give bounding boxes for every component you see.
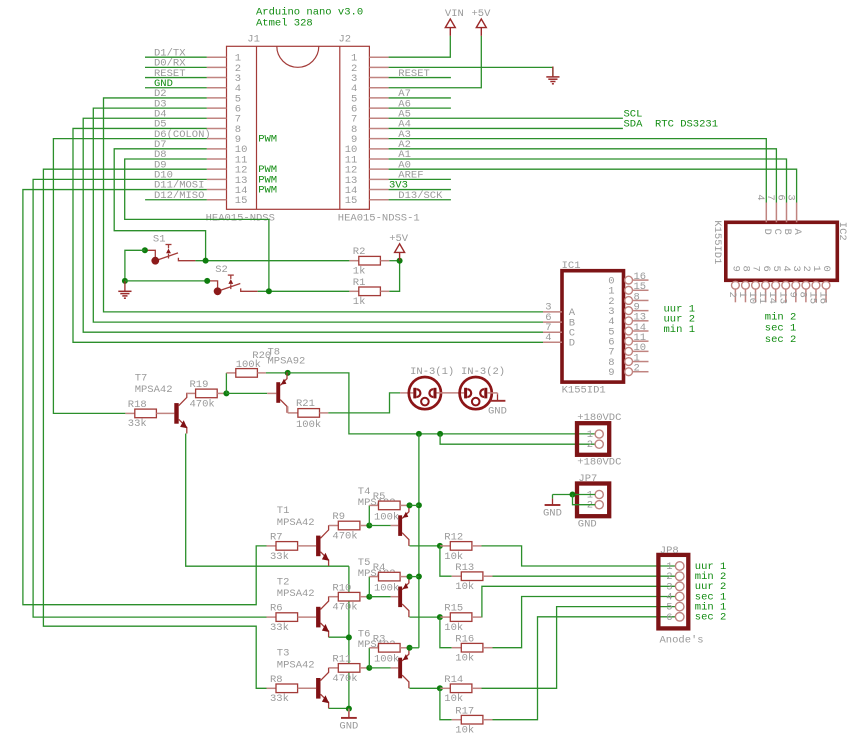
transistor T1 (NPN)	[316, 525, 329, 566]
pin right of R16	[483, 647, 493, 649]
pin 1 of J1	[207, 56, 227, 58]
svg-text:100k: 100k	[374, 654, 399, 666]
pin 9 of IC2	[795, 289, 797, 302]
pin right of R20	[257, 372, 266, 374]
pin 6 (B) of IC1	[543, 321, 562, 323]
junction +5V node	[397, 258, 403, 264]
junction node S1-D7	[203, 258, 209, 264]
svg-text:R2: R2	[353, 246, 366, 258]
pin 11 of J1	[207, 158, 227, 160]
svg-text:GND: GND	[339, 720, 358, 732]
svg-text:IC1: IC1	[562, 260, 581, 272]
IC IC1 K155ID1 body	[562, 271, 624, 382]
pin 6 of J2	[369, 107, 388, 109]
pin 14 of IC1	[633, 330, 649, 332]
svg-text:VIN: VIN	[445, 8, 464, 20]
svg-text:100k: 100k	[374, 583, 399, 595]
ground earth symbol switches	[118, 281, 131, 298]
pin 7 of J1	[207, 117, 227, 119]
pin 3 of J1	[207, 77, 227, 79]
wire JP7 pin2 riser	[573, 495, 596, 505]
pin left of R18	[125, 412, 134, 414]
pin 3 (A) of IC1	[543, 311, 562, 313]
svg-text:R13: R13	[455, 562, 474, 574]
pin right of R4	[400, 576, 409, 578]
transistor T5 (PNP)	[398, 577, 409, 618]
pin right of R13	[483, 575, 493, 577]
inverter bubble output 1 of IC2	[812, 281, 820, 289]
wire R15 node down to R16	[440, 617, 452, 648]
wire net GND stub	[145, 87, 207, 89]
switch S2	[207, 264, 258, 295]
inverter bubble output 3 of IC1	[625, 307, 633, 315]
wire JP7 pin1 to GND	[553, 494, 596, 496]
connector JP7 body	[577, 484, 609, 517]
resistor R20	[236, 369, 258, 378]
svg-text:IN-3(2): IN-3(2)	[461, 366, 505, 378]
pin between lamps	[437, 392, 465, 394]
pin left of R8	[267, 687, 277, 689]
inverter bubble output 4 of IC1	[625, 317, 633, 325]
resistor R21	[298, 409, 320, 418]
svg-text:15: 15	[345, 195, 358, 207]
pin left of R13	[452, 575, 462, 577]
pin 5 pad of JP8	[675, 602, 684, 611]
junction T3 emitter / GND	[346, 706, 352, 712]
svg-text:PWM: PWM	[258, 185, 277, 197]
svg-text:100k: 100k	[296, 419, 321, 431]
wire net A6	[389, 107, 451, 109]
wire R10 to T5 base	[369, 596, 390, 598]
svg-text:JP8: JP8	[660, 545, 679, 557]
svg-text:33k: 33k	[270, 693, 289, 705]
svg-text:10k: 10k	[444, 693, 463, 705]
svg-text:6: 6	[666, 612, 672, 624]
inverter bubble output 5 of IC2	[772, 281, 780, 289]
wire R14 to JP8 pin5	[482, 607, 676, 689]
wire to +180VDC pin 2	[440, 434, 595, 444]
pin 12 of J2	[369, 168, 388, 170]
wire GND bus to symbol	[348, 709, 350, 712]
neon lamp IN-3(1)	[409, 366, 454, 409]
pin 6 of J1	[207, 107, 227, 109]
pin left of R7	[267, 545, 277, 547]
wire net A1 to IC2	[389, 159, 787, 203]
wire R12 node down to R13	[440, 546, 452, 576]
wire R16 to JP8 pin4	[493, 597, 676, 648]
junction R14 node	[437, 685, 443, 691]
pin left of R14	[440, 687, 450, 689]
wire net A3 to IC2	[389, 139, 767, 203]
svg-text:R10: R10	[332, 582, 351, 594]
pin 1 pad of +180VDC	[595, 430, 603, 438]
pin 4 pad of JP8	[675, 592, 684, 601]
pin 14 of IC2	[775, 289, 777, 302]
junction S1 common	[142, 247, 148, 253]
svg-text:GND: GND	[578, 519, 597, 531]
wire net D10 to R6	[33, 179, 266, 617]
pin right of R1	[380, 290, 389, 292]
resistor R19	[196, 389, 218, 398]
pin right of R19	[217, 392, 226, 394]
pin right of R15	[472, 616, 482, 618]
pin 6 (B) of IC2	[786, 203, 788, 223]
svg-text:R4: R4	[373, 562, 386, 574]
svg-text:+180VDC: +180VDC	[577, 412, 621, 424]
pin 12 of J1	[207, 168, 227, 170]
wire earth riser	[552, 67, 554, 76]
wire net RESET left	[145, 77, 207, 79]
pin left of R9	[329, 525, 338, 527]
svg-text:3: 3	[784, 194, 796, 200]
svg-text:R1: R1	[353, 277, 366, 289]
pin 2 pad of JP8	[675, 572, 684, 581]
wire net D3 to IC1 pin B	[93, 108, 543, 322]
pin left of R3	[369, 647, 378, 649]
svg-text:PWM: PWM	[258, 134, 277, 146]
ground GND symbol lamps	[488, 394, 507, 417]
wire +180V long vertical	[418, 434, 420, 648]
resistor R8	[276, 684, 298, 693]
svg-text:10k: 10k	[455, 725, 474, 736]
resistor R7	[276, 542, 298, 551]
pin right of R14	[472, 687, 482, 689]
wire T6 collector to R14	[410, 687, 440, 689]
pin base of T6	[391, 667, 399, 669]
pin right of R2	[380, 260, 389, 262]
svg-text:T7: T7	[135, 372, 148, 384]
inverter bubble output 1 of IC1	[625, 286, 633, 294]
svg-text:15: 15	[235, 195, 248, 207]
pin left of R12	[440, 545, 450, 547]
svg-text:S2: S2	[215, 264, 228, 276]
svg-text:SDA RTC DS3231: SDA RTC DS3231	[624, 119, 719, 131]
svg-text:R6: R6	[270, 603, 283, 615]
svg-text:MPSA92: MPSA92	[268, 356, 306, 368]
pin left of R15	[440, 616, 450, 618]
pin left of R4	[369, 576, 378, 578]
svg-text:470k: 470k	[332, 530, 357, 542]
junction R15 node	[437, 614, 443, 620]
svg-text:10k: 10k	[455, 581, 474, 593]
svg-text:33k: 33k	[128, 418, 147, 430]
junction T8 emitter node	[285, 370, 291, 376]
wire R15 to JP8 pin3	[482, 586, 676, 617]
inverter bubble output 2 of IC1	[625, 297, 633, 305]
svg-text:R21: R21	[296, 398, 315, 410]
pin left of R5	[369, 504, 378, 506]
resistor R11	[338, 664, 360, 673]
svg-text:2: 2	[634, 363, 640, 375]
wire net D9 to R8	[43, 169, 266, 688]
junction R9-R5 node	[366, 523, 372, 529]
resistor R13	[461, 572, 483, 581]
resistor R6	[276, 613, 298, 622]
svg-text:R11: R11	[332, 654, 351, 666]
pin 5 of J1	[207, 97, 227, 99]
svg-text:sec 2: sec 2	[695, 612, 727, 624]
svg-text:min 1: min 1	[664, 324, 696, 336]
svg-text:R8: R8	[270, 674, 283, 686]
junction +180V pin2 branch	[437, 431, 443, 437]
transistor T6 (PNP)	[398, 648, 409, 689]
svg-text:K155ID1: K155ID1	[562, 385, 606, 397]
pin 2 of IC2	[734, 289, 736, 302]
pin 1 pad of JP8	[675, 562, 684, 571]
svg-text:+5V: +5V	[389, 233, 409, 245]
junction JP7 pins	[570, 492, 576, 498]
pin 13 of J2	[369, 178, 388, 180]
svg-text:33k: 33k	[270, 622, 289, 634]
inverter bubble output 3 of IC2	[792, 281, 800, 289]
resistor R15	[450, 613, 472, 622]
junction +180V at long vertical	[416, 431, 422, 437]
pin 3 of J2	[369, 77, 388, 79]
pin left of R21	[288, 412, 298, 414]
resistor R9	[338, 521, 360, 530]
resistor R12	[450, 542, 472, 551]
svg-text:min 2: min 2	[765, 311, 797, 323]
wire R13 to JP8 pin2	[493, 575, 676, 577]
junction R5 right	[407, 502, 413, 508]
svg-text:R7: R7	[270, 532, 283, 544]
wire T5 collector to R15	[410, 616, 440, 618]
svg-text:A: A	[791, 229, 803, 236]
ground GND symbol bottom	[339, 712, 358, 733]
inverter bubble output 8 of IC2	[742, 281, 750, 289]
svg-text:16: 16	[817, 292, 829, 305]
junction R3 right	[407, 645, 413, 651]
inverter bubble output 8 of IC1	[625, 358, 633, 366]
svg-text:R16: R16	[455, 633, 474, 645]
svg-text:T2: T2	[277, 576, 290, 588]
svg-text:0: 0	[820, 266, 832, 272]
svg-text:+180VDC: +180VDC	[577, 457, 621, 469]
wire net 3V3	[389, 189, 451, 191]
wire net D1/TX	[145, 56, 207, 58]
svg-text:100k: 100k	[236, 359, 261, 371]
pin right of R21	[320, 412, 329, 414]
pin 14 of J1	[207, 189, 227, 191]
pin right of R7	[298, 545, 317, 547]
pin 1 of IC1	[633, 361, 649, 363]
inverter bubble output 2 of IC2	[802, 281, 810, 289]
wire net VIN	[389, 36, 451, 57]
pin left of R2	[349, 260, 358, 262]
junction R11-R3 node	[366, 665, 372, 671]
power symbol +5V switches	[389, 233, 409, 261]
transistor T8 (PNP)	[276, 372, 287, 413]
svg-text:T1: T1	[277, 505, 290, 517]
svg-text:470k: 470k	[332, 673, 357, 685]
pin 2 of J1	[207, 66, 227, 68]
pin 10 of J2	[369, 148, 388, 150]
inverter bubble output 0 of IC2	[822, 281, 830, 289]
pin 8 of J2	[369, 127, 388, 129]
svg-text:R12: R12	[444, 532, 463, 544]
pin 7 (C) of IC2	[775, 203, 777, 223]
pin base of T5	[391, 596, 399, 598]
wire +180V from T8 node	[288, 373, 595, 434]
pin right of R8	[298, 687, 317, 689]
transistor T7 (NPN)	[174, 393, 187, 434]
svg-text:MPSA42: MPSA42	[277, 588, 315, 600]
svg-text:R17: R17	[455, 705, 474, 717]
wire R19 node up to R20	[225, 373, 227, 394]
junction +180V stage2	[416, 574, 422, 580]
svg-text:MPSA42: MPSA42	[135, 384, 173, 396]
pin right of R6	[298, 616, 317, 618]
wire R20 to T8 emitter node	[266, 372, 288, 374]
pin left of R16	[452, 647, 462, 649]
wire net A5 SCL	[389, 117, 623, 119]
svg-text:HEA015-NDSS-1: HEA015-NDSS-1	[338, 212, 420, 224]
svg-text:J1: J1	[247, 34, 260, 46]
wire R4 left riser	[368, 577, 370, 597]
pin 2 pad of +180VDC	[595, 440, 603, 448]
junction R19-R20-T8 base	[223, 390, 229, 396]
resistor R3	[379, 644, 401, 653]
pin 8 of IC2	[805, 289, 807, 302]
wire net D4 to IC1 pin C	[83, 118, 543, 332]
pin right of R5	[400, 504, 409, 506]
inverter bubble output 9 of IC1	[625, 368, 633, 376]
pin 3 (A) of IC2	[796, 203, 798, 223]
resistor R18	[135, 409, 157, 418]
wire net A4 SDA	[389, 127, 623, 129]
wire R1 up to +5V node	[389, 261, 399, 292]
pin right of R9	[360, 525, 369, 527]
svg-text:sec 1: sec 1	[765, 323, 797, 335]
resistor R17	[461, 715, 483, 724]
svg-text:R18: R18	[128, 399, 147, 411]
pin 13 of J1	[207, 178, 227, 180]
pin 16 of IC1	[633, 279, 649, 281]
svg-text:MPSA42: MPSA42	[277, 517, 315, 529]
pin 7 of J2	[369, 117, 388, 119]
wire net A0 to IC2	[389, 169, 797, 202]
pin right of R18	[156, 412, 174, 414]
svg-text:R5: R5	[373, 491, 386, 503]
svg-text:HEA015-NDSS: HEA015-NDSS	[206, 212, 275, 224]
wire R5 left riser	[368, 505, 370, 525]
ground earth symbol top right	[546, 67, 559, 84]
pin right of R3	[400, 647, 409, 649]
power symbol +5V top	[472, 8, 492, 36]
junction R4 right	[407, 574, 413, 580]
pin 5 of J2	[369, 97, 388, 99]
svg-text:J2: J2	[339, 34, 352, 46]
svg-text:R19: R19	[190, 379, 209, 391]
wire net D0/RX	[145, 66, 207, 68]
pin 11 of IC1	[633, 340, 649, 342]
wire R2 to +5V node	[389, 260, 399, 262]
svg-text:4: 4	[545, 332, 551, 344]
wire S2 throw to R1	[258, 290, 350, 292]
pin 13 of IC2	[785, 289, 787, 302]
pin 4 (D) of IC2	[765, 203, 767, 223]
transistor T4 (PNP)	[398, 505, 409, 546]
pin 14 of J2	[369, 189, 388, 191]
wire R21 to IN-3(1)	[328, 393, 400, 413]
inverter bubble output 6 of IC1	[625, 337, 633, 345]
svg-text:sec 2: sec 2	[765, 334, 797, 346]
wire R12 to JP8 pin1	[482, 546, 676, 566]
pin 1 pad of JP7	[595, 490, 603, 498]
svg-text:R14: R14	[444, 674, 463, 686]
pin 8 of J1	[207, 127, 227, 129]
pin 10 of J1	[207, 148, 227, 150]
wire S1 throw to R2	[195, 260, 349, 262]
wire net GND to earth	[389, 66, 553, 68]
wire GND arm	[552, 495, 554, 499]
svg-text:9: 9	[608, 367, 614, 379]
wire R11 to T6 base	[369, 667, 390, 669]
pin 10 of IC2	[755, 289, 757, 302]
svg-text:1k: 1k	[353, 296, 366, 308]
pin 10 of IC1	[633, 350, 649, 352]
pin base of T8	[267, 392, 276, 394]
pin 15 of J1	[207, 199, 227, 201]
svg-text:R3: R3	[373, 633, 386, 645]
connector JP8 body	[658, 555, 688, 629]
wire T3 emitter to bus	[329, 707, 349, 709]
resistor R4	[379, 572, 401, 581]
pin 2 of J2	[369, 66, 388, 68]
inverter bubble output 6 of IC2	[762, 281, 770, 289]
pin 15 of IC1	[633, 289, 649, 291]
wire GND bus vertical	[348, 566, 350, 708]
svg-text:D: D	[569, 338, 575, 350]
svg-text:2: 2	[587, 500, 593, 512]
neon lamp IN-3(2)	[460, 366, 506, 409]
svg-text:1k: 1k	[353, 266, 366, 278]
pin 4 of J1	[207, 87, 227, 89]
inverter bubble output 0 of IC1	[625, 276, 633, 284]
svg-text:2: 2	[587, 439, 593, 451]
pin left of R11	[329, 667, 338, 669]
svg-text:10k: 10k	[444, 622, 463, 634]
wire R17 to JP8 pin6	[493, 617, 676, 720]
ground GND symbol JP7	[543, 499, 562, 520]
svg-text:IC2: IC2	[836, 222, 848, 241]
pin left of R20	[226, 372, 235, 374]
pin 1 of J2	[369, 56, 388, 58]
svg-text:IN-3(1): IN-3(1)	[410, 366, 454, 378]
pin left of R1	[349, 290, 358, 292]
wire net +5V	[389, 36, 482, 88]
wire R9 to T4 base	[369, 525, 390, 527]
pin right of R12	[472, 545, 482, 547]
wire net D8 to S2	[125, 159, 269, 291]
pin 2 of IC1	[633, 371, 649, 373]
pin 7 (C) of IC1	[543, 331, 562, 333]
pin 2 pad of JP7	[595, 501, 603, 509]
switch S1	[145, 233, 196, 264]
pin 3 pad of JP8	[675, 582, 684, 591]
svg-text:33k: 33k	[270, 551, 289, 563]
pin 15 of IC2	[815, 289, 817, 302]
pin left of R19	[187, 392, 196, 394]
wire net RESET right	[389, 77, 451, 79]
pin 9 of J1	[207, 138, 227, 140]
junction node S2-D8	[266, 288, 272, 294]
wire lamp2 to GND	[497, 393, 499, 395]
pin 4 (D) of IC1	[543, 341, 562, 343]
pin 11 of IC2	[765, 289, 767, 302]
wire ground rail to S2 common	[125, 280, 207, 282]
pin 4 of J2	[369, 87, 388, 89]
